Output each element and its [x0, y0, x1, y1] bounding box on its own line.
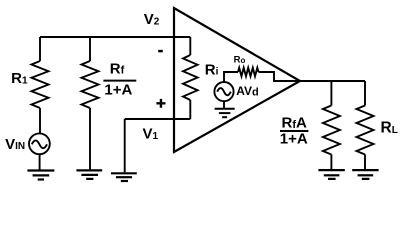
svg-text:VIN: VIN — [5, 136, 25, 153]
resistor R1 — [32, 61, 49, 108]
resistor Ri — [183, 55, 198, 100]
resistor RL — [357, 106, 374, 155]
resistor RfA/(1+A) — [323, 106, 340, 155]
ground: V1 branch — [111, 173, 137, 181]
wire: RL branch to ground — [364, 155, 366, 170]
wire: RfA branch drop — [330, 81, 332, 106]
ground: VIN branch — [27, 171, 54, 180]
source VIN sine — [32, 140, 47, 148]
svg-text:V2: V2 — [144, 11, 160, 28]
svg-text:Rf: Rf — [110, 60, 125, 77]
svg-text:RL: RL — [381, 120, 398, 137]
svg-text:RfA: RfA — [282, 115, 308, 132]
wire: VIN to ground — [39, 154, 41, 170]
ground: Rf branch — [76, 170, 102, 179]
wire: R1 to VIN source — [39, 108, 41, 134]
source AVd sine — [217, 88, 231, 95]
wire: Rf branch top stub — [89, 37, 91, 61]
ground: AVd internal — [215, 109, 235, 118]
wire: RfA branch to ground — [330, 155, 332, 170]
wire: Ri bottom stub to V1 net — [189, 100, 191, 119]
wire: bottom net V1 — [125, 118, 191, 120]
source AVd circle — [214, 82, 233, 101]
wire: R1 top stub — [39, 37, 41, 61]
fraction bar RfA/(1+A) — [280, 130, 308, 132]
wire: AVd to internal ground — [223, 101, 225, 108]
op-amp U1 triangle — [174, 8, 300, 152]
wire: V1 drop to ground — [124, 119, 126, 172]
wire: output net from apex — [300, 80, 365, 82]
svg-text:1+A: 1+A — [104, 82, 132, 99]
fraction bar Rf/(1+A) — [103, 80, 136, 82]
svg-text:Ro: Ro — [234, 55, 246, 66]
svg-text:Ri: Ri — [205, 61, 219, 78]
svg-text:1+A: 1+A — [280, 130, 308, 147]
wire: AVd source top to Ro — [224, 72, 238, 82]
wire: Rf branch to ground — [89, 108, 91, 169]
resistor Ro — [238, 68, 259, 77]
wire: Ri top stub — [189, 37, 191, 55]
ground: RfA branch — [318, 170, 344, 179]
ground: RL branch — [352, 170, 378, 179]
resistor Rf/(1+A) — [82, 61, 99, 108]
wire: Ro to apex step — [259, 72, 301, 81]
wire: RL branch drop — [364, 81, 366, 106]
wire: top net V2 from R1 to Ri — [40, 36, 190, 38]
op-amp inverting input marker - — [158, 50, 163, 53]
svg-text:R1: R1 — [11, 70, 28, 87]
svg-text:V1: V1 — [143, 126, 159, 143]
op-amp non-inverting input marker + — [156, 99, 165, 108]
svg-text:AVd: AVd — [236, 84, 259, 98]
source VIN circle — [29, 133, 50, 154]
